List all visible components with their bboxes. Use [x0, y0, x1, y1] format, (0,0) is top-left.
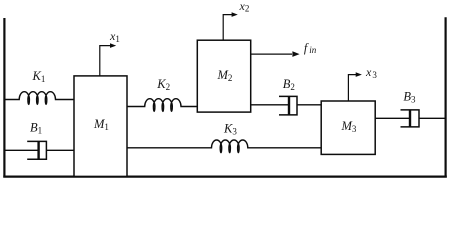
arrow f_in head — [292, 51, 299, 57]
arrow x3 head — [356, 72, 362, 77]
damper B3 rod wire — [375, 117, 410, 119]
arrow f_in line — [251, 53, 292, 55]
damper B2 rod wire — [251, 104, 289, 106]
arrow x1 head — [110, 43, 116, 48]
svg-text:B1: B1 — [30, 121, 42, 136]
damper B2 piston — [288, 96, 290, 115]
arrow x1 line — [100, 46, 111, 76]
spring K3 — [127, 140, 321, 153]
floor — [3, 176, 447, 178]
damper B3 piston — [409, 110, 411, 127]
arrow x3 line — [348, 75, 356, 101]
damper B3 cup — [401, 110, 420, 127]
wall right — [445, 17, 447, 177]
spring K2 — [127, 99, 197, 112]
svg-text:K2: K2 — [156, 77, 170, 92]
mass M1 — [74, 76, 127, 176]
svg-text:K1: K1 — [32, 69, 46, 84]
damper B2 cup — [279, 96, 297, 115]
spring K1 — [4, 92, 74, 105]
svg-text:K3: K3 — [223, 121, 237, 136]
damper B1 rod wire — [4, 149, 39, 151]
arrow x2 head — [232, 12, 238, 17]
damper B1 cup — [27, 141, 46, 159]
svg-text:x1: x1 — [109, 29, 120, 44]
svg-text:x2: x2 — [239, 0, 250, 14]
damper B1 piston — [37, 141, 39, 159]
damper B2 right wire — [297, 104, 321, 106]
wall left — [3, 18, 5, 178]
damper B1 right wire — [46, 149, 74, 151]
mass M2 — [197, 40, 250, 112]
svg-text:B2: B2 — [283, 77, 295, 92]
arrow x2 line — [223, 15, 232, 41]
mass M3 — [321, 101, 375, 154]
svg-text:fin: fin — [304, 41, 317, 55]
damper B3 right wire — [419, 117, 446, 119]
svg-text:B3: B3 — [403, 89, 416, 104]
svg-text:x3: x3 — [365, 65, 377, 80]
